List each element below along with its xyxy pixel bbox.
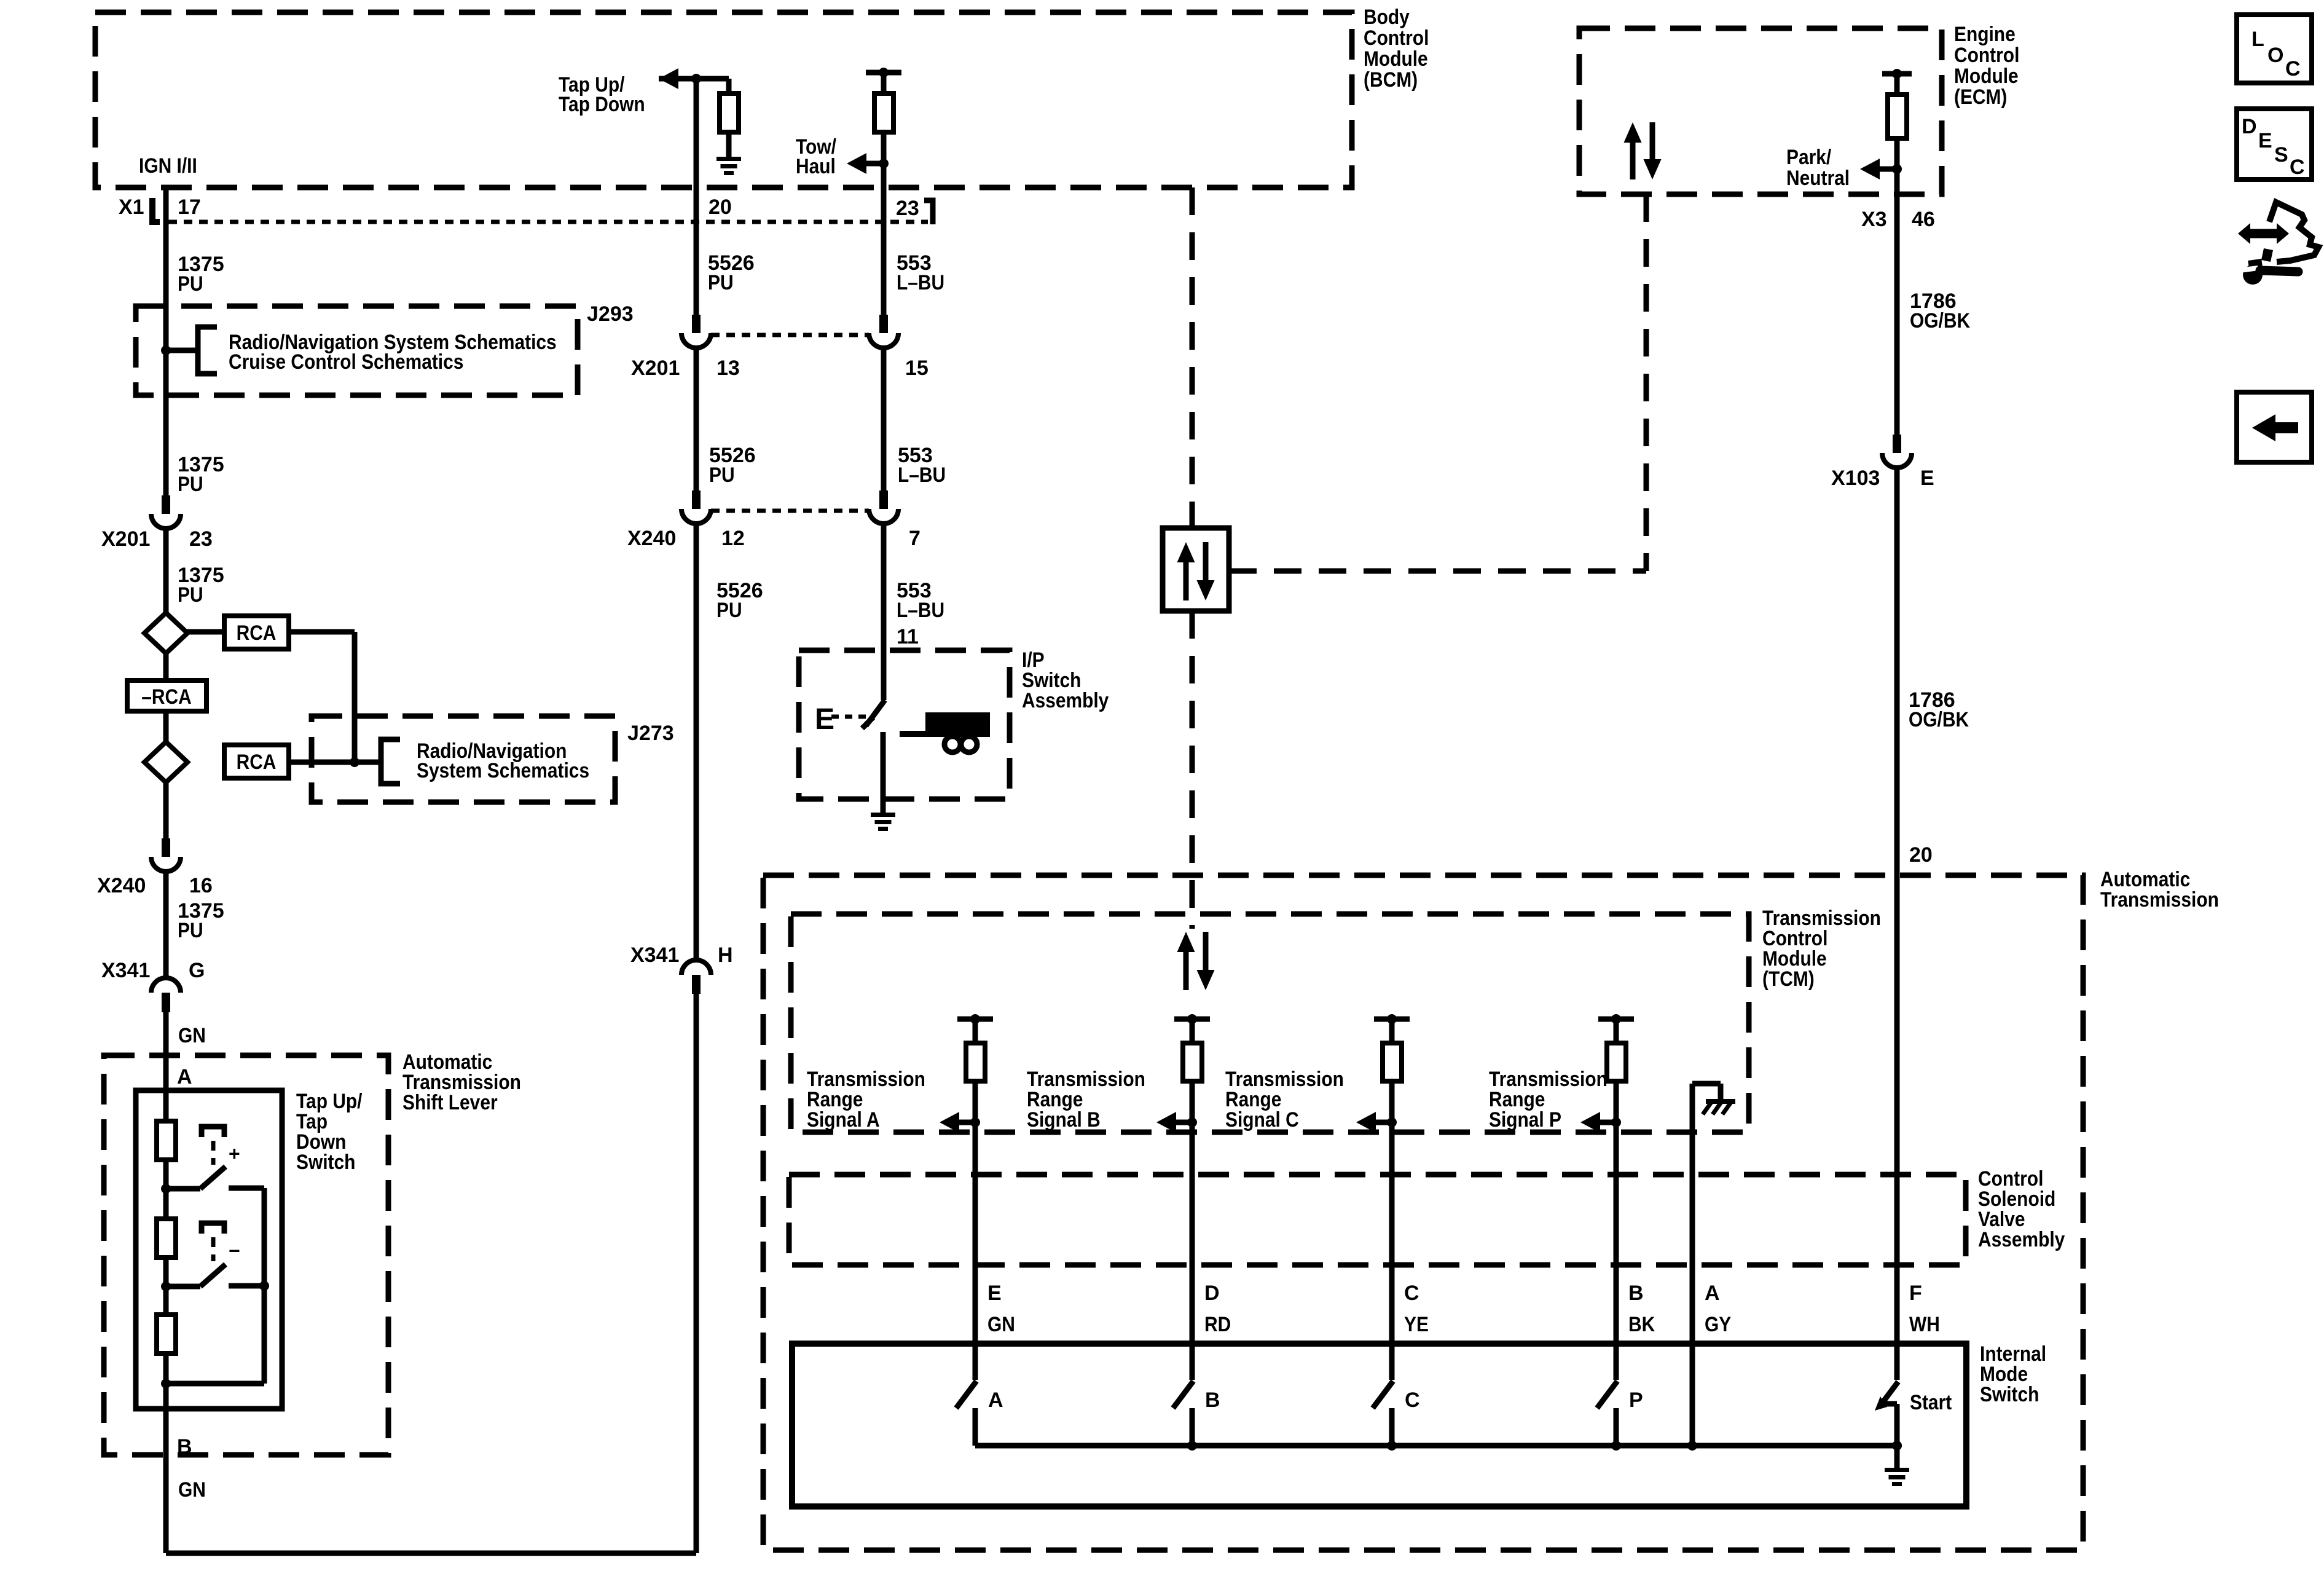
svg-text:17: 17 [178, 195, 201, 219]
svg-text:Tap Down: Tap Down [559, 93, 645, 116]
svg-text:D: D [1204, 1282, 1220, 1305]
svg-text:23: 23 [896, 197, 919, 220]
svg-text:PU: PU [178, 583, 203, 607]
svg-text:L–BU: L–BU [897, 271, 944, 294]
svg-text:PU: PU [716, 599, 742, 622]
svg-text:PU: PU [708, 271, 734, 294]
svg-text:X240: X240 [627, 527, 676, 550]
svg-text:Assembly: Assembly [1978, 1228, 2065, 1251]
svg-text:Assembly: Assembly [1022, 689, 1109, 712]
svg-text:Transmission: Transmission [2100, 888, 2219, 912]
svg-text:A: A [1705, 1282, 1720, 1305]
svg-text:E: E [1920, 467, 1934, 490]
svg-text:C: C [2290, 156, 2305, 179]
svg-text:Module: Module [1954, 65, 2019, 88]
svg-text:E: E [2258, 129, 2272, 152]
svg-text:WH: WH [1909, 1313, 1940, 1336]
svg-text:E: E [987, 1282, 1002, 1305]
svg-text:Cruise Control Schematics: Cruise Control Schematics [229, 350, 463, 374]
svg-text:Neutral: Neutral [1786, 167, 1850, 190]
svg-text:(BCM): (BCM) [1364, 68, 1418, 92]
svg-text:OG/BK: OG/BK [1909, 708, 1969, 731]
svg-text:Switch: Switch [1980, 1383, 2039, 1406]
svg-text:−: − [229, 1240, 240, 1262]
svg-text:L–BU: L–BU [898, 463, 946, 487]
svg-text:PU: PU [709, 463, 735, 487]
svg-text:L–BU: L–BU [897, 599, 944, 622]
svg-text:Signal A: Signal A [807, 1108, 880, 1132]
svg-text:X3: X3 [1861, 208, 1887, 231]
svg-text:B: B [1628, 1282, 1644, 1305]
svg-text:L: L [2251, 28, 2264, 51]
svg-text:23: 23 [189, 527, 213, 551]
svg-text:Haul: Haul [796, 155, 836, 178]
svg-text:O: O [2267, 44, 2283, 67]
svg-text:GY: GY [1705, 1313, 1731, 1336]
svg-text:20: 20 [1909, 843, 1933, 867]
svg-text:GN: GN [178, 1024, 206, 1047]
svg-text:+: + [229, 1143, 240, 1165]
svg-text:J293: J293 [587, 302, 634, 326]
svg-text:(ECM): (ECM) [1954, 85, 2007, 109]
svg-text:A: A [177, 1065, 192, 1089]
svg-text:16: 16 [189, 874, 213, 897]
svg-text:PU: PU [178, 272, 203, 296]
svg-text:RCA: RCA [237, 750, 277, 774]
svg-text:BK: BK [1628, 1313, 1655, 1336]
svg-text:Body: Body [1364, 6, 1410, 29]
svg-text:20: 20 [709, 195, 732, 219]
svg-text:X103: X103 [1831, 467, 1880, 490]
svg-text:X201: X201 [101, 527, 150, 551]
svg-text:B: B [1205, 1388, 1220, 1412]
svg-text:System Schematics: System Schematics [417, 759, 589, 782]
svg-text:Shift Lever: Shift Lever [402, 1091, 498, 1114]
svg-text:Engine: Engine [1954, 23, 2016, 46]
svg-text:RCA: RCA [237, 621, 277, 645]
svg-text:Control: Control [1954, 44, 2019, 67]
svg-text:C: C [1405, 1388, 1420, 1412]
svg-text:B: B [177, 1435, 192, 1459]
svg-text:C: C [1404, 1282, 1419, 1305]
svg-text:D: D [2242, 115, 2257, 138]
svg-text:GN: GN [178, 1478, 206, 1502]
svg-text:IGN I/II: IGN I/II [139, 154, 197, 178]
svg-text:PU: PU [178, 919, 203, 942]
svg-text:X341: X341 [630, 943, 679, 967]
svg-text:H: H [718, 943, 733, 967]
svg-text:RD: RD [1204, 1313, 1231, 1336]
svg-text:OG/BK: OG/BK [1910, 309, 1970, 333]
svg-text:PU: PU [178, 473, 203, 496]
svg-text:Switch: Switch [296, 1151, 355, 1174]
svg-text:Start: Start [1910, 1391, 1952, 1414]
svg-text:Signal B: Signal B [1027, 1108, 1101, 1132]
svg-text:Module: Module [1364, 47, 1428, 71]
svg-text:–RCA: –RCA [141, 685, 191, 709]
svg-text:GN: GN [987, 1313, 1015, 1336]
svg-text:X240: X240 [97, 874, 146, 897]
svg-text:F: F [1909, 1282, 1922, 1305]
svg-text:(TCM): (TCM) [1762, 967, 1815, 991]
svg-text:E: E [815, 703, 834, 736]
svg-text:X1: X1 [119, 195, 144, 219]
svg-text:12: 12 [721, 527, 745, 550]
svg-text:X201: X201 [631, 356, 680, 380]
svg-text:Control: Control [1364, 26, 1429, 50]
svg-text:X341: X341 [101, 959, 150, 982]
svg-text:11: 11 [897, 625, 919, 648]
svg-text:7: 7 [909, 527, 921, 550]
svg-text:P: P [1629, 1388, 1643, 1412]
svg-text:J273: J273 [627, 722, 674, 745]
svg-text:YE: YE [1404, 1313, 1429, 1336]
svg-text:C: C [2285, 57, 2301, 81]
svg-text:A: A [988, 1388, 1003, 1412]
svg-text:Signal P: Signal P [1489, 1108, 1561, 1132]
svg-text:G: G [189, 959, 205, 982]
svg-text:S: S [2274, 143, 2288, 167]
svg-text:13: 13 [716, 356, 740, 380]
svg-text:Signal C: Signal C [1225, 1108, 1299, 1132]
svg-text:15: 15 [905, 356, 928, 380]
svg-text:Park/: Park/ [1786, 146, 1832, 169]
svg-text:46: 46 [1912, 208, 1935, 231]
